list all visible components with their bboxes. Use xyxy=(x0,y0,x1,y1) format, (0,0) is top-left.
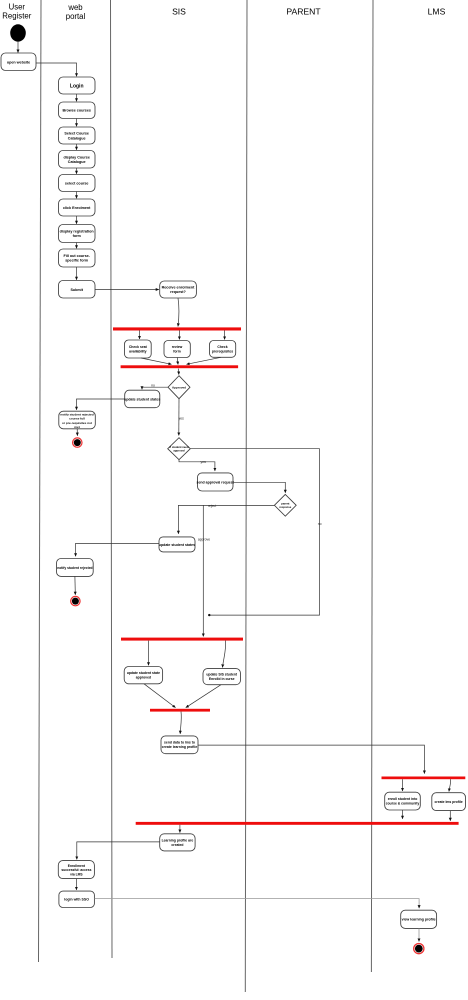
svg-text:update student states: update student states xyxy=(159,543,195,547)
svg-text:Enrolld in curse: Enrolld in curse xyxy=(209,677,235,681)
svg-text:no: no xyxy=(318,522,322,526)
svg-text:yes: yes xyxy=(201,460,207,464)
svg-text:Select Course: Select Course xyxy=(64,132,89,136)
fork bar 5 xyxy=(382,777,466,780)
wire notify student rejected to final node 2 xyxy=(74,576,76,594)
activity login with SSO xyxy=(59,891,95,907)
svg-text:request?: request? xyxy=(170,290,186,294)
lane line SIS / PARENT xyxy=(245,0,247,992)
wire join6 to Learning profile are created xyxy=(179,825,181,833)
wire login with SSO to view learning profile xyxy=(94,899,419,909)
svg-text:notify student rejected: notify student rejected xyxy=(57,566,92,570)
lane line web portal / SIS xyxy=(111,0,113,958)
svg-text:availability: availability xyxy=(129,349,146,353)
svg-text:display registration: display registration xyxy=(60,230,95,234)
wire update SIS student to join bar 4 xyxy=(186,685,221,708)
activity Check seat availability xyxy=(125,340,152,358)
svg-text:Fill out course-: Fill out course- xyxy=(63,254,90,258)
wire yes branch from decision to send approval request xyxy=(179,460,215,471)
activity Check prerequisites xyxy=(210,341,236,358)
final node 2 xyxy=(71,596,80,605)
wire Check seat availability to join bar 2 xyxy=(141,358,172,364)
wire reject branch from parent response to update student states 2 xyxy=(178,505,274,533)
merge dot xyxy=(208,614,210,616)
svg-text:LMS: LMS xyxy=(428,7,446,17)
svg-text:Approved: Approved xyxy=(172,385,186,389)
initial node xyxy=(10,24,26,41)
svg-text:Receive enrolment: Receive enrolment xyxy=(162,286,196,290)
svg-text:select course: select course xyxy=(65,181,89,185)
lane header web portal xyxy=(66,3,86,21)
wire click Enrolment to display registration form xyxy=(76,216,78,224)
svg-text:Register: Register xyxy=(2,12,31,21)
svg-text:Browse courses: Browse courses xyxy=(62,109,91,113)
lane line PARENT / LMS xyxy=(371,0,373,972)
svg-text:course & community: course & community xyxy=(386,802,420,806)
decision if student need approval xyxy=(168,438,191,460)
wire approve branch down to fork bar 3 xyxy=(202,505,204,636)
activity Browse courses xyxy=(59,102,96,119)
wire Browse courses to Select Course Catalogue xyxy=(76,119,78,127)
wire fork3 to update SIS student xyxy=(223,641,226,668)
wire enroll student to join bar 6 xyxy=(402,810,404,819)
wire display registration form to Fill out course-specific form xyxy=(76,243,78,249)
svg-text:open website: open website xyxy=(7,61,30,65)
activity Login xyxy=(59,77,96,94)
svg-text:approve: approve xyxy=(198,537,210,541)
svg-text:Learning profile are: Learning profile are xyxy=(162,839,194,843)
wire create lms profile to join bar 6 xyxy=(449,811,451,821)
wire update student states 2 to notify student rejected xyxy=(76,543,159,556)
wire fork5 to create lms profile xyxy=(449,779,451,791)
wire Approved yes branch to second decision xyxy=(178,399,180,436)
wire open website to Login xyxy=(36,63,77,76)
svg-text:approved: approved xyxy=(136,676,151,680)
wire fork1 to Check prerequisites xyxy=(224,331,226,340)
wire fork1 to review form xyxy=(178,331,180,340)
svg-text:form: form xyxy=(73,234,82,238)
svg-text:update student states: update student states xyxy=(124,397,160,401)
activity Fill out course-specific form xyxy=(59,249,96,267)
activity update student states (rejected) xyxy=(124,390,160,408)
wire Learning profile to Enrollment successful xyxy=(77,842,160,860)
svg-text:Catalogue: Catalogue xyxy=(68,160,86,164)
activity Enrollment successful access via LMS xyxy=(58,861,94,879)
wire initial node to open website xyxy=(17,42,19,53)
activity display registration form xyxy=(59,225,96,243)
svg-text:click Enrolment: click Enrolment xyxy=(63,206,91,210)
svg-text:created: created xyxy=(171,843,183,847)
wire join4 to send data to lms xyxy=(180,712,181,734)
svg-text:Catalogue: Catalogue xyxy=(68,136,86,140)
decision parent response xyxy=(274,494,296,516)
svg-text:Submit: Submit xyxy=(70,288,83,292)
fork bar 1 xyxy=(113,327,241,330)
activity update student state approved xyxy=(124,667,162,684)
join bar 6 xyxy=(136,822,459,825)
wire Check prerequisites to join bar 2 xyxy=(187,357,222,364)
svg-text:parent: parent xyxy=(281,502,289,506)
activity update SIS student Enrolld in curse xyxy=(203,669,241,685)
svg-text:specific form: specific form xyxy=(65,259,89,263)
wire notify student rejected to final node 1 xyxy=(76,429,78,436)
svg-text:enroll student into: enroll student into xyxy=(388,797,418,801)
svg-text:create learning profile: create learning profile xyxy=(162,745,198,749)
activity notify student rejected course full xyxy=(59,411,96,429)
activity display Course Catalogue xyxy=(59,151,96,169)
wire no bypass from decision right to merge dot xyxy=(190,449,319,615)
svg-text:form: form xyxy=(173,349,181,353)
join bar 2 xyxy=(121,365,239,368)
wire update student state approved to join bar 4 xyxy=(144,684,176,708)
svg-text:reject: reject xyxy=(208,504,216,508)
svg-text:PARENT: PARENT xyxy=(286,7,321,17)
svg-text:User: User xyxy=(9,3,26,12)
activity notify student rejected xyxy=(57,559,94,577)
wire select course to click Enrolment xyxy=(76,192,78,199)
lane header User Register xyxy=(2,3,31,21)
activity send approval request xyxy=(197,473,235,491)
wire Select Course Catalogue to display Course Catalogue xyxy=(76,144,78,150)
activity Learning profile are created xyxy=(160,834,195,851)
svg-text:no: no xyxy=(151,384,155,388)
activity send data to lms to create learning profile xyxy=(161,736,198,754)
svg-text:prerequisites: prerequisites xyxy=(212,349,233,353)
activity create lms profile xyxy=(432,793,466,811)
lane line User Register / web portal xyxy=(39,0,42,962)
svg-text:SIS: SIS xyxy=(172,7,186,17)
wire display Course Catalogue to select course xyxy=(76,168,78,174)
svg-text:Login: Login xyxy=(70,84,84,90)
wire Fill out form to Submit xyxy=(76,267,78,280)
activity update student states 2 xyxy=(159,537,195,552)
svg-text:login with SSO: login with SSO xyxy=(64,898,89,902)
final node 3 xyxy=(414,944,424,954)
svg-text:review: review xyxy=(172,345,183,349)
svg-text:update SIS student: update SIS student xyxy=(206,673,238,677)
join bar 4 xyxy=(150,709,210,712)
svg-text:Check: Check xyxy=(217,345,227,349)
wire fork1 to Check seat availability xyxy=(139,331,141,340)
wire view learning profile to final node 3 xyxy=(418,928,420,941)
svg-text:approval: approval xyxy=(173,449,184,453)
wire fork5 to enroll student xyxy=(402,779,404,791)
decision Approved xyxy=(168,376,190,399)
activity select course xyxy=(59,175,96,192)
svg-text:met: met xyxy=(74,425,80,429)
wire send approval request to parent response xyxy=(233,482,285,493)
activity view learning profile xyxy=(401,910,437,928)
activity review form xyxy=(164,341,190,358)
activity click Enrolment xyxy=(59,199,96,216)
svg-text:create lms profile: create lms profile xyxy=(435,800,463,804)
wire join2 to diamond Approved xyxy=(178,369,180,375)
activity Receive enrolment request xyxy=(160,281,197,298)
wire Receive enrolment request to fork bar 1 xyxy=(177,298,180,326)
wire fork3 to update student state approved xyxy=(148,641,150,666)
activity enroll student into course & community xyxy=(385,792,421,810)
svg-text:web: web xyxy=(67,3,83,12)
activity Submit xyxy=(59,281,96,299)
wire Login to Browse courses xyxy=(76,94,78,101)
wire Submit to Receive enrolment request xyxy=(95,289,159,291)
wire update student states to notify student rejected (course full) xyxy=(77,399,125,410)
svg-text:update student state: update student state xyxy=(127,671,160,675)
svg-text:display Course: display Course xyxy=(63,155,89,159)
wire review form to join bar 2 xyxy=(176,358,179,365)
svg-text:via LMS: via LMS xyxy=(70,872,83,876)
final node 1 xyxy=(73,438,82,447)
wire send data to lms to fork bar 5 xyxy=(198,745,424,774)
wire Approved no branch to update student states xyxy=(142,387,168,389)
svg-text:view learning profile: view learning profile xyxy=(402,918,436,922)
svg-text:send approval request: send approval request xyxy=(197,481,235,485)
svg-text:Check seat: Check seat xyxy=(129,345,148,349)
wire Enrollment successful to login with SSO xyxy=(75,879,77,890)
fork bar 3 xyxy=(121,638,243,641)
svg-text:if student need: if student need xyxy=(169,445,188,449)
svg-text:portal: portal xyxy=(66,12,86,21)
activity open website xyxy=(1,53,36,71)
svg-text:response: response xyxy=(279,505,291,509)
svg-text:send data to lms to: send data to lms to xyxy=(164,741,195,745)
activity Select Course Catalogue xyxy=(59,127,96,144)
svg-text:yes: yes xyxy=(179,417,185,421)
